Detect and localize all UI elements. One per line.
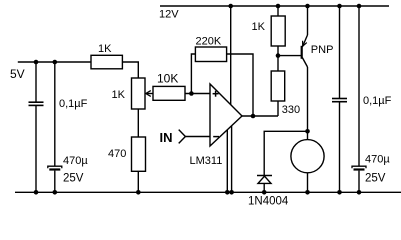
svg-text:0,1µF: 0,1µF <box>363 95 392 107</box>
wire: D1 anode to ground <box>263 183 265 192</box>
wire: flyback branch to diode <box>264 131 307 175</box>
wire: R5 to 12V rail <box>277 6 279 16</box>
junction: base node <box>276 53 281 58</box>
junction: ground rail / pin4 <box>229 190 234 195</box>
junction: 12V rail / C3 <box>337 4 342 9</box>
svg-text:25V: 25V <box>63 172 84 184</box>
potentiometer P1 1K <box>132 78 154 109</box>
svg-text:25V: 25V <box>365 173 386 185</box>
capacitor C1 0,1uF <box>29 62 44 192</box>
junction: ground rail / C4 <box>357 190 362 195</box>
wire: ground bottom rail <box>15 191 401 193</box>
wire: 5V supply <box>18 61 91 63</box>
capacitor C3 0,1µF (right) <box>332 6 347 192</box>
junction: ground rail / C3 <box>337 190 342 195</box>
wire: P1 bottom to R2 <box>137 109 139 137</box>
wire: R4 riser <box>191 54 195 94</box>
junction: 5V wire / C2 <box>53 60 58 65</box>
junction: 5V wire / C1 <box>34 60 39 65</box>
resistor R4 220K (hysteresis) <box>195 47 226 62</box>
svg-text:LM311: LM311 <box>190 155 223 167</box>
wire: R2 to ground rail <box>137 171 139 192</box>
junction: collector line / flyback branch <box>305 129 310 134</box>
junction: 12V rail / U1 V+ pin <box>228 4 233 9</box>
resistor R1 1K (horizontal, from 5V) <box>91 55 122 69</box>
resistor R2 470 <box>132 137 146 171</box>
op-amp U1 LM311 comparator <box>210 84 242 146</box>
svg-text:10K: 10K <box>157 72 178 86</box>
wire: output up to R6 <box>277 101 279 116</box>
junction: 12V rail / C4 <box>357 4 362 9</box>
resistor R3 10K (wiper to +input) <box>153 86 185 100</box>
svg-text:PNP: PNP <box>311 44 334 56</box>
junction: ground rail / R2 <box>136 190 141 195</box>
svg-text:470µ: 470µ <box>63 155 88 167</box>
svg-text:IN: IN <box>160 130 173 145</box>
wire: R4 to output node <box>227 54 253 116</box>
wire: R6 to base node <box>277 46 279 71</box>
junction: 12V rail / Q1 emitter <box>305 4 310 9</box>
svg-text:1K: 1K <box>98 43 112 55</box>
transistor Q1 PNP <box>302 6 308 67</box>
junction: ground rail / M1 <box>305 190 310 195</box>
junction: output node / R4 <box>251 114 256 119</box>
junction: ground rail / D1 <box>262 190 267 195</box>
wire: base node to Q1 base <box>278 55 301 57</box>
wire: U1 ground pin 4 <box>231 126 233 193</box>
svg-text:12V: 12V <box>159 8 179 20</box>
svg-text:470µ: 470µ <box>365 154 390 166</box>
svg-text:1N4004: 1N4004 <box>248 196 289 208</box>
diode D1 1N4004 (flyback) <box>257 176 272 184</box>
wire: M1 to ground <box>307 173 309 193</box>
input connector IN chevron <box>179 130 186 144</box>
svg-text:0,1µF: 0,1µF <box>59 98 88 110</box>
wire: 12V top rail <box>160 5 389 7</box>
wire: IN to U1 - input <box>186 136 211 138</box>
wire: Q1 collector down to motor <box>307 67 309 140</box>
capacitor C4 470µ electrolytic (right) <box>352 6 366 192</box>
wire: U1 output <box>242 115 278 117</box>
resistor R5 1K (pullup) <box>271 16 285 46</box>
junction: ground rail / pin1 <box>225 190 230 195</box>
wire: R3 to U1 + input <box>185 93 210 95</box>
junction: +input wire / R4 riser <box>189 91 194 96</box>
svg-text:5V: 5V <box>10 67 25 81</box>
wire: U1 V+ pin to 12V rail <box>230 6 232 105</box>
capacitor C2 470µ electrolytic <box>48 62 62 192</box>
svg-text:1K: 1K <box>112 89 126 101</box>
wire: R1 to P1 top <box>122 62 138 78</box>
resistor R6 330 <box>271 71 285 101</box>
svg-text:330: 330 <box>282 104 300 116</box>
svg-text:1K: 1K <box>252 21 266 33</box>
svg-text:470: 470 <box>108 148 126 160</box>
junction: 12V rail / R5 <box>276 4 281 9</box>
svg-text:220K: 220K <box>196 35 222 47</box>
junction: ground rail / C2 <box>53 190 58 195</box>
junction: ground rail / C1 <box>34 190 39 195</box>
wire: U1 ground pin 1 <box>226 130 228 193</box>
motor M1 (load) <box>291 140 324 173</box>
